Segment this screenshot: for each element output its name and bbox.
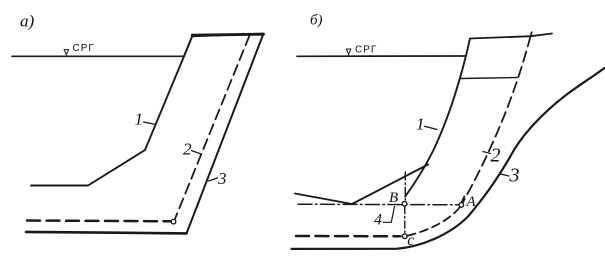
- wall outline a: [184, 34, 264, 234]
- leader 2a: [192, 151, 202, 155]
- leader 1a: [144, 122, 157, 125]
- svg-text:1: 1: [135, 110, 144, 129]
- wall top edge b: [470, 34, 552, 39]
- svg-text:3: 3: [217, 169, 227, 188]
- svg-text:В: В: [389, 190, 398, 206]
- svg-text:1: 1: [416, 115, 425, 134]
- svg-text:2: 2: [183, 140, 192, 159]
- svg-text:б): б): [310, 13, 323, 29]
- sliding plane dashed 2b lower: [407, 208, 460, 236]
- berm line a: [31, 185, 88, 187]
- berm line b: [295, 194, 352, 205]
- leader 1b: [425, 126, 438, 129]
- svg-text:3: 3: [509, 165, 520, 187]
- vertical dashed B to C: [404, 207, 406, 234]
- water line b: [297, 55, 465, 57]
- bottom line a: [26, 232, 187, 234]
- wall face below water a: [145, 56, 184, 150]
- leader 3b: [501, 174, 510, 176]
- wall face b: [405, 39, 470, 197]
- svg-text:4: 4: [374, 212, 382, 229]
- point C circle: [403, 234, 408, 239]
- dimension bracket 4: [383, 207, 394, 223]
- dashed bottom line a: [27, 219, 171, 222]
- design bottom dash-dot b: [298, 203, 459, 206]
- water line a: [12, 55, 184, 57]
- dashed bottom line b: [296, 235, 401, 238]
- svg-text:СРГ: СРГ: [73, 43, 95, 54]
- wall joint line b: [461, 78, 517, 79]
- point A circle: [459, 203, 464, 208]
- bottom line and natural slope curve 3b: [292, 68, 605, 249]
- leader 2b: [483, 152, 491, 154]
- berm slope a: [88, 150, 145, 186]
- sliding plane dashed 2a: [175, 36, 250, 220]
- svg-text:2: 2: [491, 145, 501, 167]
- vertical dash-dot above B: [404, 172, 406, 201]
- svg-text:СРГ: СРГ: [355, 45, 377, 56]
- anchor point circle a: [171, 219, 176, 224]
- leader 3a: [209, 178, 218, 181]
- berm slope b: [352, 165, 428, 205]
- sliding plane dashed 2b upper: [461, 36, 531, 206]
- point B circle: [402, 201, 407, 206]
- water level symbol a: [64, 50, 69, 56]
- svg-text:а): а): [20, 12, 35, 31]
- water level symbol b: [346, 49, 351, 55]
